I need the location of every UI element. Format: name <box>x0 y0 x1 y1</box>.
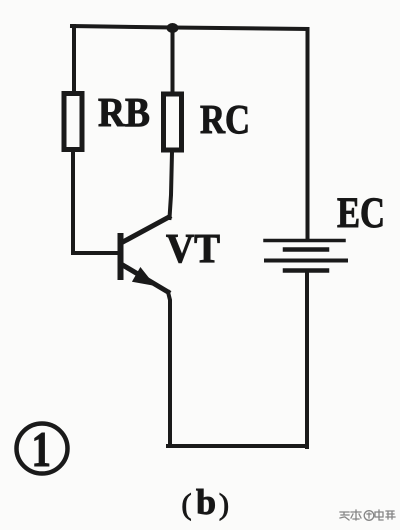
wire right vertical top (to battery) <box>306 30 310 239</box>
wire right vertical bottom (battery to bottom) <box>305 272 309 447</box>
svg-text:1: 1 <box>32 421 52 477</box>
watermark 头条@电巢 <box>340 510 395 520</box>
wire top horizontal <box>72 26 308 29</box>
svg-text:(: ( <box>182 488 192 521</box>
resistor RC <box>164 94 182 150</box>
battery EC plate 4 short <box>285 268 327 273</box>
wire bottom horizontal <box>168 444 307 448</box>
transistor VT base bar <box>118 236 124 277</box>
wire RB bottom to base corner <box>73 152 118 253</box>
node junction top <box>167 23 179 33</box>
battery EC plate 3 long <box>266 259 346 263</box>
battery EC plate 1 long <box>265 239 344 243</box>
wire RC top (junction to RC) <box>171 28 175 94</box>
svg-text:RB: RB <box>98 89 150 135</box>
svg-text:RC: RC <box>200 96 250 142</box>
wire emitter vertical down <box>168 292 170 446</box>
svg-text:b: b <box>196 482 216 522</box>
transistor VT collector diagonal <box>121 217 169 243</box>
battery EC plate 2 short <box>285 247 327 252</box>
wire left vertical (top to RB) <box>72 26 76 93</box>
resistor RB <box>64 94 82 150</box>
svg-text:): ) <box>219 488 229 521</box>
wire collector vertical (RC bottom to collector) <box>170 152 173 218</box>
transistor VT emitter diagonal <box>121 264 168 292</box>
svg-text:EC: EC <box>337 190 385 237</box>
figure number circle 1 <box>17 424 68 474</box>
transistor VT emitter arrow <box>134 269 154 285</box>
svg-text:VT: VT <box>166 225 220 271</box>
